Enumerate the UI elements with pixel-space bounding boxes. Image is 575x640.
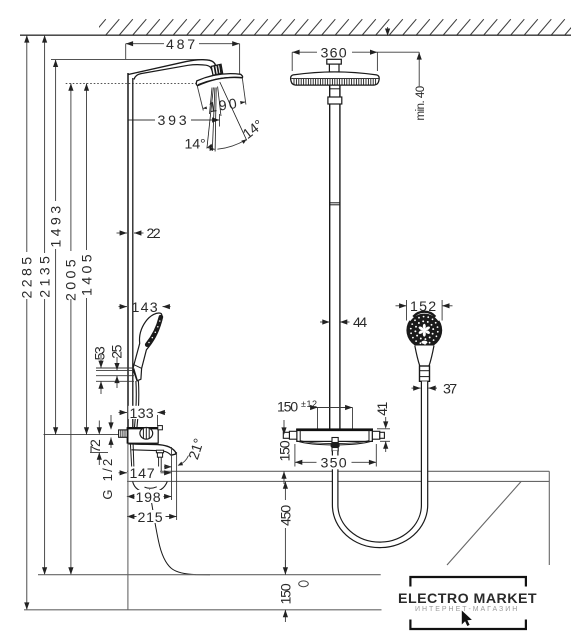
dim 450 [278, 481, 294, 574]
dim 487 [126, 37, 240, 74]
ceiling shower plate [291, 72, 380, 85]
svg-text:150: 150 [277, 400, 300, 416]
svg-text:150: 150 [279, 582, 295, 605]
dim 198 [127, 490, 172, 506]
pipe union nut [328, 97, 342, 104]
thermostat left nipple [283, 431, 297, 439]
min. 40 label [415, 52, 427, 120]
logo bottom bracket [410, 620, 526, 630]
dim 393 [128, 113, 220, 129]
ref line head level (dashed) [66, 82, 197, 84]
ceiling line [20, 34, 571, 36]
min 40 ceiling arrow [385, 27, 390, 36]
thermostat right nipple [372, 431, 384, 439]
svg-text:25: 25 [110, 343, 126, 359]
handshower handle (right) [415, 346, 434, 367]
14 deg arcs [207, 138, 248, 152]
thermostat body [296, 429, 373, 445]
svg-text:37: 37 [443, 381, 459, 397]
floor line [38, 574, 381, 576]
svg-text:1493: 1493 [48, 204, 64, 248]
svg-text:350: 350 [321, 456, 349, 472]
svg-text:44: 44 [353, 315, 369, 331]
dim 350 [295, 444, 376, 467]
dim 215 [127, 510, 177, 526]
wall line below mixer [127, 444, 129, 610]
handshower head (right) [406, 312, 442, 348]
svg-text:72: 72 [88, 437, 104, 453]
dim 2005 vertical line [64, 83, 78, 574]
dim 25 [110, 343, 126, 388]
hose below mixer [130, 444, 134, 471]
label 2285 [20, 255, 36, 299]
svg-text:min. 40: min. 40 [415, 85, 427, 121]
dim 150 thermostat height chain [277, 420, 293, 484]
label 350 [317, 456, 352, 472]
shower hose (right, U shape) [332, 381, 427, 547]
tub diagonal [447, 481, 521, 565]
hose connector block [420, 366, 430, 381]
svg-text:53: 53 [93, 344, 109, 360]
dim 152 [396, 299, 453, 321]
dim 1405 vertical line [80, 83, 94, 434]
plate nozzle band [294, 79, 376, 85]
bottom line [24, 609, 382, 611]
svg-text:133: 133 [130, 406, 156, 422]
svg-text:215: 215 [138, 510, 165, 526]
svg-text:ИНТЕРНЕТ-МАГАЗИН: ИНТЕРНЕТ-МАГАЗИН [415, 606, 519, 613]
dim 44 [320, 315, 369, 331]
ref line connection axis [44, 434, 119, 436]
dim 360 [292, 45, 419, 71]
svg-text:393: 393 [158, 113, 189, 129]
label 1405 [79, 253, 95, 297]
tub right edge [548, 471, 550, 565]
svg-text:450: 450 [278, 503, 294, 526]
svg-text:2135: 2135 [37, 254, 53, 298]
logo text ELECTRO MARKET [398, 591, 539, 607]
svg-text:487: 487 [166, 37, 197, 53]
dim 41 [375, 400, 391, 452]
tub left curve [150, 490, 211, 575]
mixer lever tab [158, 426, 163, 430]
dim 147 [119, 466, 172, 482]
dim 150±12 [277, 399, 353, 429]
svg-text:ELECTRO MARKET: ELECTRO MARKET [398, 591, 539, 607]
dim 133 [119, 406, 166, 426]
mouse cursor [462, 611, 472, 627]
spout extension lines [172, 447, 177, 520]
thermostat diverter knob [331, 438, 340, 451]
wall connection nipple G1/2 [119, 430, 128, 437]
shower arm [128, 60, 216, 80]
svg-text:198: 198 [136, 490, 163, 506]
G 1/2 callout [100, 415, 115, 500]
drain ellipse [299, 581, 309, 587]
svg-text:G 1/2: G 1/2 [100, 458, 115, 500]
svg-text:2005: 2005 [64, 258, 80, 302]
logo top bracket [410, 577, 526, 587]
ref line arm top [51, 59, 200, 61]
label 14 deg right (tilted) [240, 116, 268, 143]
dim 2285 vertical line [20, 35, 34, 610]
logo sub text [415, 606, 519, 613]
21 deg callout [164, 435, 208, 469]
mixer dial [140, 428, 153, 440]
plate top connector [327, 59, 342, 72]
svg-text:150: 150 [277, 439, 293, 462]
dim 2135 vertical line [38, 35, 52, 575]
label 1493 [48, 204, 64, 248]
dim 22 [117, 226, 163, 242]
dim 143 [119, 300, 171, 316]
ceiling pipe [330, 85, 340, 429]
label 2135 [37, 254, 53, 298]
dim 53 [93, 344, 109, 394]
spout fitting [156, 450, 163, 471]
dim 1493 vertical line [49, 60, 63, 435]
head nozzle dots [410, 316, 439, 345]
label 14 deg left [185, 137, 208, 153]
dim 37 [412, 381, 460, 397]
spray lines [207, 82, 247, 152]
dim 72 [88, 421, 108, 466]
handshower holder lines [96, 368, 134, 381]
head center star [418, 324, 431, 337]
svg-text:147: 147 [130, 466, 157, 482]
shower pipe (left column) [128, 73, 133, 427]
tub spout [128, 444, 176, 456]
svg-text:2285: 2285 [20, 255, 36, 299]
dim 190 (tilted) [197, 78, 246, 116]
head bottom pivot [421, 341, 427, 344]
overhead shower head (tilted slab) [196, 74, 242, 86]
svg-text:1405: 1405 [79, 253, 95, 297]
svg-text:14°: 14° [185, 137, 208, 153]
ceiling hatch band [92, 19, 575, 35]
arm ball joint [211, 64, 222, 75]
svg-text:41: 41 [375, 400, 391, 416]
label 2005 [64, 258, 80, 302]
handshower hose (left) [135, 381, 139, 427]
handshower (left) [133, 313, 162, 381]
bath mixer body [127, 428, 159, 445]
dim 150 bottom [279, 560, 295, 622]
svg-text:22: 22 [147, 226, 163, 242]
tub rim recess arc [133, 481, 168, 492]
tub rim lines [127, 471, 549, 481]
